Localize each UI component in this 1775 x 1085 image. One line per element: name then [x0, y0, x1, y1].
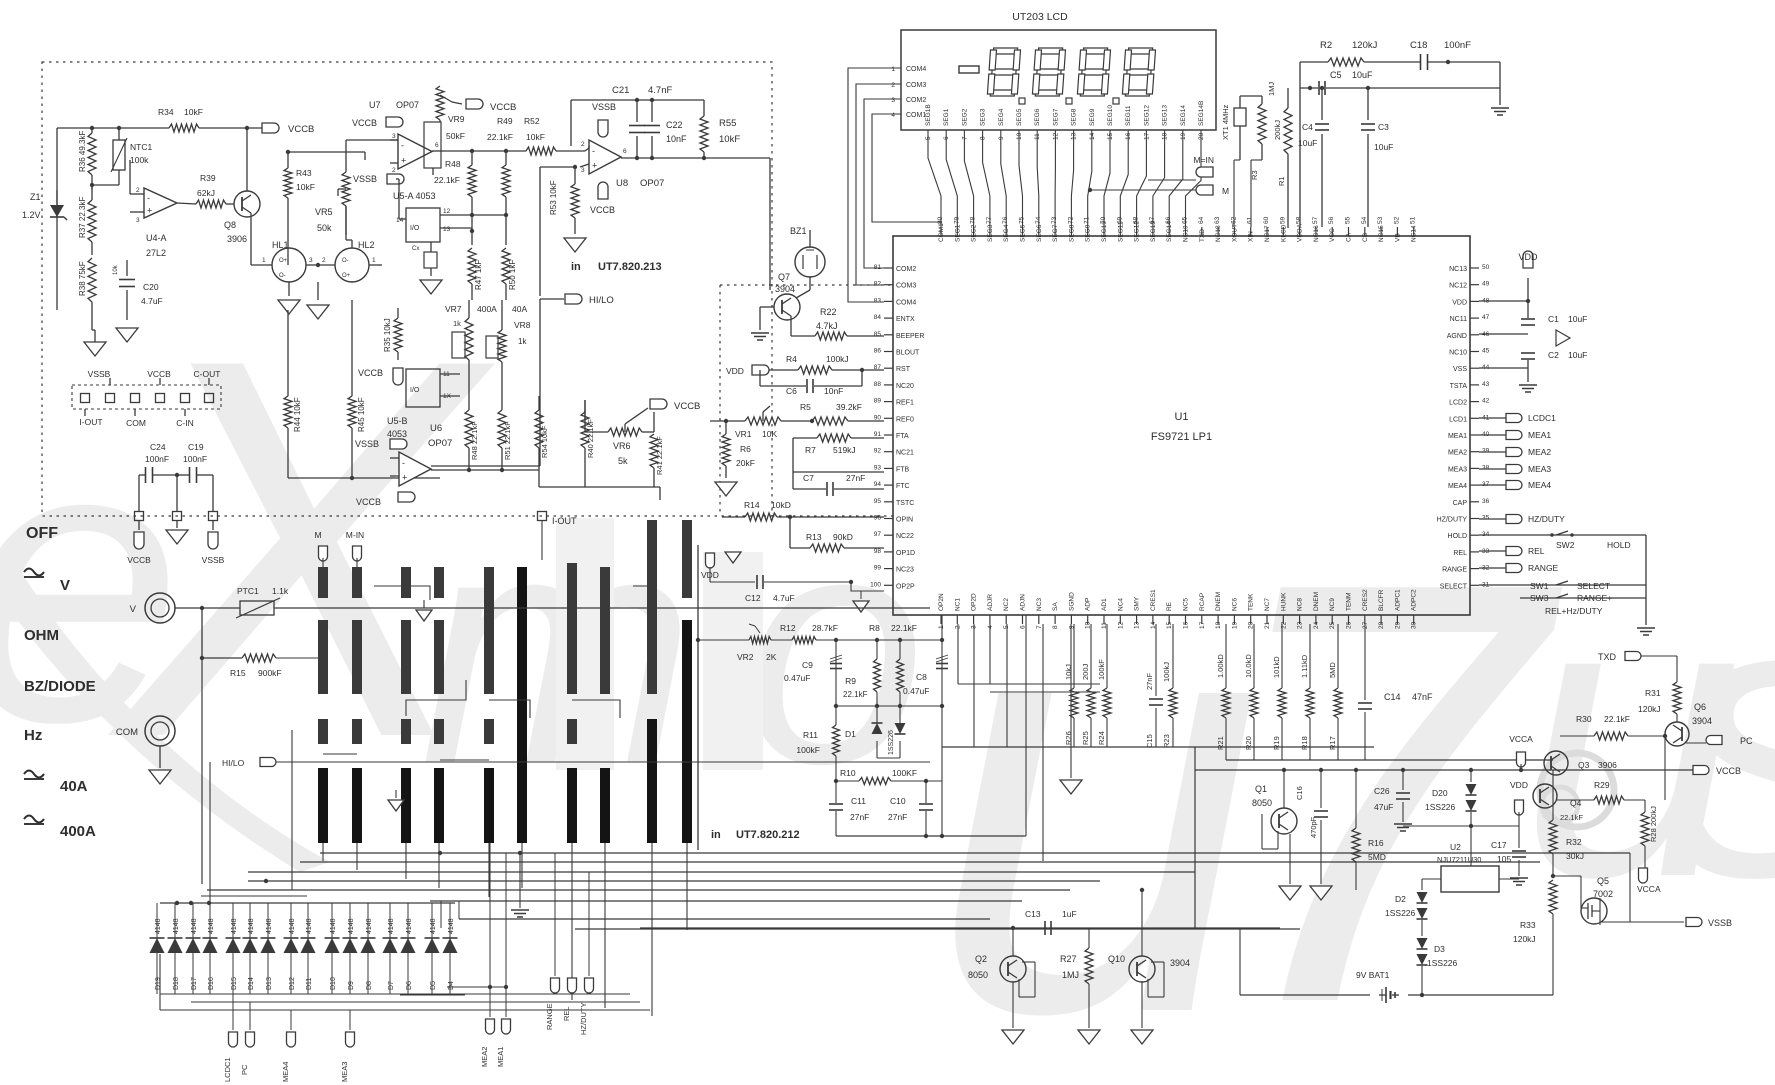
svg-text:25: 25 — [1329, 621, 1336, 629]
svg-text:10uF: 10uF — [1352, 70, 1373, 80]
frame bottom wire — [1195, 928, 1300, 930]
svg-text:10kJ: 10kJ — [1064, 664, 1073, 680]
gnd arrow under SGND pin — [1070, 624, 1072, 778]
svg-text:61: 61 — [1247, 216, 1254, 224]
wire pin6 column to rail — [1025, 615, 1027, 836]
svg-text:R14: R14 — [744, 500, 760, 510]
svg-text:VSSB: VSSB — [202, 555, 225, 565]
svg-text:R47 1kF: R47 1kF — [474, 260, 483, 290]
svg-text:MEA2: MEA2 — [1528, 447, 1551, 457]
svg-text:V: V — [60, 577, 70, 594]
wire BZ1 top — [809, 230, 811, 247]
svg-text:U7: U7 — [369, 100, 381, 110]
svg-text:86: 86 — [874, 348, 882, 355]
svg-text:R18: R18 — [1300, 736, 1309, 750]
svg-text:COM4: COM4 — [896, 299, 916, 306]
svg-text:M-IN: M-IN — [346, 530, 364, 540]
svg-text:13: 13 — [1134, 621, 1141, 629]
svg-text:VCCB: VCCB — [358, 368, 383, 378]
svg-text:REL+Hz/DUTY: REL+Hz/DUTY — [1545, 606, 1603, 616]
signal wire U7 out — [444, 150, 526, 152]
capacitor C8 0.47uF — [941, 615, 943, 706]
svg-text:OP1D: OP1D — [896, 550, 915, 557]
svg-text:ADJR: ADJR — [987, 594, 994, 611]
capacitor C1 10uF — [1527, 301, 1529, 318]
svg-text:R28 200kJ: R28 200kJ — [1649, 806, 1658, 842]
svg-text:SW2: SW2 — [1556, 540, 1575, 550]
svg-text:ADP: ADP — [1085, 598, 1092, 611]
svg-text:R54 10kF: R54 10kF — [540, 425, 549, 458]
ground below Q1 — [1279, 886, 1301, 900]
diode D5 4148 — [431, 903, 433, 938]
resistor R17 5MD — [1337, 624, 1339, 688]
svg-text:NC5: NC5 — [1183, 598, 1190, 611]
svg-text:519kJ: 519kJ — [833, 445, 856, 455]
diode D18 4148 — [174, 903, 176, 938]
svg-text:R40 22.1kF: R40 22.1kF — [586, 419, 595, 458]
svg-text:SEG2: SEG2 — [961, 108, 968, 126]
svg-text:D10: D10 — [330, 977, 337, 990]
svg-text:97: 97 — [874, 531, 882, 538]
svg-text:4148: 4148 — [231, 918, 238, 934]
resistor R30 22.1kF — [1560, 735, 1594, 737]
svg-text:D6: D6 — [406, 981, 413, 990]
label AC/DC V — [24, 576, 44, 578]
square nodes on dashed line — [135, 512, 144, 521]
svg-text:NJU7211U30: NJU7211U30 — [1437, 855, 1481, 864]
svg-text:Q8: Q8 — [224, 220, 236, 230]
capacitor C26 47uF — [1402, 770, 1404, 790]
ground below Q10 — [1141, 982, 1143, 1028]
svg-text:D17: D17 — [191, 977, 198, 990]
svg-text:VCCB: VCCB — [590, 205, 615, 215]
pad VCCB mid — [393, 368, 403, 385]
svg-text:56: 56 — [1328, 216, 1335, 224]
svg-text:C20: C20 — [143, 282, 159, 292]
svg-text:3: 3 — [891, 97, 895, 104]
LCD digit 8 (1) — [987, 48, 1020, 96]
svg-text:VR1: VR1 — [735, 429, 752, 439]
svg-text:SEG7: SEG7 — [1052, 108, 1059, 126]
svg-text:HL2: HL2 — [358, 240, 375, 250]
dashed boundary line y=516 to U1 — [772, 515, 893, 517]
svg-text:NC23: NC23 — [896, 567, 914, 574]
rotary switch contact column x=357 — [352, 567, 362, 598]
ground arrow in bars — [423, 600, 425, 608]
svg-text:NC18: NC18 — [1215, 225, 1222, 242]
U1 right pins — [1470, 267, 1479, 269]
capacitor C11 27nF — [835, 781, 837, 803]
svg-text:90kD: 90kD — [833, 532, 853, 542]
svg-text:100nF: 100nF — [1444, 40, 1471, 51]
svg-text:7002: 7002 — [1593, 889, 1613, 899]
svg-text:Q7: Q7 — [778, 272, 790, 282]
resistor R34 10kF — [169, 124, 199, 132]
svg-text:ADJN: ADJN — [1020, 594, 1027, 611]
svg-text:4: 4 — [891, 112, 895, 119]
earth below C17 — [1510, 877, 1528, 879]
svg-text:Q1: Q1 — [1255, 784, 1267, 794]
ground below OP2P wire — [860, 591, 862, 599]
resistor R24 100kF — [1106, 624, 1108, 688]
earth below C2 — [1527, 360, 1529, 382]
svg-text:SEG10: SEG10 — [1107, 105, 1114, 126]
svg-text:MEA2: MEA2 — [480, 1047, 489, 1067]
diode D16 4148 — [209, 903, 211, 938]
svg-text:C11: C11 — [851, 796, 866, 806]
svg-text:D13: D13 — [266, 977, 273, 990]
svg-text:R48: R48 — [445, 159, 461, 169]
resistor R21 1.00kD — [1225, 624, 1227, 688]
svg-text:D15: D15 — [231, 977, 238, 990]
pad PC bottom — [249, 1002, 251, 1030]
svg-text:4148: 4148 — [248, 918, 255, 934]
svg-text:I-OUT: I-OUT — [552, 516, 577, 526]
svg-text:1SS226: 1SS226 — [1425, 802, 1456, 812]
wire HL1 top to R43 — [287, 248, 289, 265]
resistor R9 22.1kF — [876, 640, 878, 659]
svg-text:OP2P: OP2P — [896, 583, 915, 590]
svg-text:R11: R11 — [803, 730, 818, 740]
ground next to VDD pad — [725, 552, 741, 563]
diode D14 4148 — [249, 903, 251, 938]
svg-text:R49: R49 — [497, 116, 513, 126]
svg-text:R34: R34 — [158, 107, 174, 117]
svg-text:900kF: 900kF — [258, 668, 282, 678]
transistor Q10 3904 — [1129, 956, 1155, 982]
small connector below U5-A — [424, 252, 437, 268]
pad MEA2 bottom — [489, 843, 491, 1017]
svg-text:R52: R52 — [524, 116, 540, 126]
svg-text:42: 42 — [1482, 398, 1490, 405]
svg-text:R29: R29 — [1594, 780, 1610, 790]
svg-text:HZ/DUTY: HZ/DUTY — [579, 1003, 588, 1036]
resistor R32 30kJ — [1552, 770, 1554, 820]
svg-text:TENK: TENK — [1248, 593, 1255, 611]
svg-text:VCCB: VCCB — [147, 369, 171, 379]
svg-text:COM: COM — [126, 418, 146, 428]
ground below C20 — [116, 328, 138, 342]
svg-text:45: 45 — [1482, 348, 1490, 355]
svg-text:R48 22.1kF: R48 22.1kF — [470, 421, 479, 460]
svg-text:R22: R22 — [820, 307, 837, 317]
svg-text:22.1kF: 22.1kF — [891, 623, 917, 633]
transistor Q3 3906 — [1544, 751, 1568, 775]
svg-text:27nF: 27nF — [846, 473, 865, 483]
svg-text:R7: R7 — [805, 445, 816, 455]
stair wires inside bars area — [374, 586, 430, 600]
svg-text:22.1kF: 22.1kF — [843, 690, 868, 699]
svg-text:R12: R12 — [780, 623, 796, 633]
svg-text:2: 2 — [392, 167, 396, 174]
svg-text:1: 1 — [891, 66, 895, 73]
svg-text:O-: O- — [279, 273, 286, 279]
svg-text:18: 18 — [1215, 621, 1222, 629]
svg-text:MEA2: MEA2 — [1448, 450, 1467, 457]
svg-text:20kF: 20kF — [736, 458, 755, 468]
wire Q8 to HL1 — [250, 240, 252, 265]
svg-text:D9: D9 — [348, 981, 355, 990]
svg-text:FTA: FTA — [896, 433, 909, 440]
bus line 2 — [300, 861, 1540, 863]
pad VCCA bottom right — [1639, 868, 1648, 883]
svg-text:HI/LO: HI/LO — [589, 295, 614, 306]
svg-text:D12: D12 — [289, 977, 296, 990]
svg-text:R20: R20 — [1244, 736, 1253, 750]
svg-text:VB: VB — [1394, 233, 1401, 242]
svg-text:R43: R43 — [296, 168, 312, 178]
svg-text:OFF: OFF — [26, 525, 58, 542]
svg-text:CA: CA — [1346, 232, 1353, 242]
svg-text:OP2D: OP2D — [971, 593, 978, 611]
svg-text:R17: R17 — [1328, 736, 1337, 750]
wires C24/C19 down to dashed line — [138, 475, 140, 511]
svg-text:88: 88 — [874, 381, 882, 388]
resistor R49 22.1kF — [502, 165, 510, 197]
svg-text:MEA4: MEA4 — [1448, 483, 1467, 490]
svg-text:R37 22.3kF: R37 22.3kF — [78, 197, 87, 238]
resistor R45 10kF — [351, 300, 353, 396]
bus line 6 — [430, 900, 1022, 902]
svg-text:29: 29 — [1394, 621, 1401, 629]
thermistor NTC1 100k — [113, 140, 125, 170]
svg-text:M: M — [1222, 186, 1229, 196]
svg-text:VCCB: VCCB — [352, 118, 377, 128]
svg-text:59: 59 — [1279, 216, 1286, 224]
capacitor C19 100nF — [177, 474, 189, 476]
svg-text:0.47uF: 0.47uF — [784, 673, 810, 683]
svg-text:22.1kF: 22.1kF — [434, 175, 460, 185]
svg-text:1MJ: 1MJ — [1062, 970, 1079, 980]
capacitor C17 105 — [1518, 826, 1520, 848]
svg-text:COM4: COM4 — [906, 66, 926, 73]
pad VCCA top — [1517, 752, 1526, 767]
inductor HL1 — [272, 248, 306, 282]
svg-text:VCC: VCC — [1329, 228, 1336, 242]
svg-text:SMY: SMY — [1134, 596, 1141, 611]
svg-text:VCCA: VCCA — [1509, 734, 1533, 744]
diode D9 4148 — [349, 903, 351, 938]
svg-text:BLOUT: BLOUT — [896, 350, 920, 357]
svg-text:C18: C18 — [1410, 40, 1427, 51]
svg-text:2: 2 — [136, 187, 140, 194]
diode D12 4148 — [290, 903, 292, 938]
pad VCCB below U6 — [398, 492, 415, 502]
svg-text:C1: C1 — [1548, 314, 1559, 324]
svg-text:CB: CB — [1362, 233, 1369, 242]
svg-text:C13: C13 — [1025, 909, 1041, 919]
svg-text:UT7.820.213: UT7.820.213 — [598, 261, 662, 273]
svg-text:36: 36 — [1482, 498, 1490, 505]
svg-text:R2: R2 — [1320, 40, 1332, 51]
diode D17 4148 — [192, 903, 194, 938]
svg-text:-: - — [402, 458, 405, 468]
pad MEA3 bottom — [349, 1010, 351, 1030]
svg-text:D14: D14 — [248, 977, 255, 990]
svg-text:R15: R15 — [230, 668, 246, 678]
svg-text:OP07: OP07 — [396, 100, 419, 110]
svg-text:VCCA: VCCA — [1637, 884, 1661, 894]
potentiometer VR7 400A — [465, 318, 473, 360]
svg-text:64: 64 — [1198, 216, 1205, 224]
svg-text:Q6: Q6 — [1694, 702, 1706, 712]
resistor R43 10kF — [284, 168, 292, 198]
svg-text:NC22: NC22 — [896, 533, 914, 540]
ground below C16 — [1310, 886, 1332, 900]
svg-text:PC: PC — [240, 1064, 249, 1075]
svg-text:30kJ: 30kJ — [1566, 851, 1584, 861]
svg-text:5MD: 5MD — [1368, 852, 1386, 862]
bus corner verticals — [440, 901, 442, 928]
wire V net down — [201, 658, 203, 884]
switch SW3 RANGE+ — [1520, 597, 1646, 599]
transistor Q5 7002 mosfet — [1581, 898, 1607, 924]
svg-text:3: 3 — [136, 217, 140, 224]
mid-left nest wires — [209, 762, 211, 903]
svg-text:4148: 4148 — [448, 918, 455, 934]
svg-text:VDD: VDD — [1452, 299, 1467, 306]
svg-text:43: 43 — [1482, 381, 1490, 388]
svg-text:VCCB: VCCB — [490, 102, 516, 113]
svg-text:M: M — [314, 530, 321, 540]
svg-text:NC20: NC20 — [896, 383, 914, 390]
svg-text:82: 82 — [874, 281, 882, 288]
pad MEA4 bottom — [290, 1010, 292, 1030]
svg-text:C17: C17 — [1491, 840, 1507, 850]
svg-text:C7: C7 — [803, 473, 814, 483]
svg-text:C9: C9 — [802, 660, 813, 670]
svg-text:U8: U8 — [616, 178, 628, 189]
resistor R8 22.1kF vertical — [899, 640, 901, 659]
svg-text:3906: 3906 — [1598, 760, 1617, 770]
resistor R50 1kF — [502, 248, 510, 284]
svg-text:200J: 200J — [1081, 663, 1090, 680]
U1 bottom pins — [940, 615, 942, 624]
svg-text:TSTC: TSTC — [896, 500, 914, 507]
svg-text:C8: C8 — [916, 672, 927, 682]
svg-text:KLCD: KLCD — [1280, 224, 1287, 242]
svg-text:40A: 40A — [512, 304, 527, 314]
svg-text:MEA3: MEA3 — [340, 1062, 349, 1082]
svg-text:HZ/DUTY: HZ/DUTY — [1528, 514, 1565, 524]
wire rail into U7 — [288, 151, 365, 153]
svg-text:12: 12 — [1117, 621, 1124, 629]
ground below dashed line — [176, 521, 178, 528]
svg-text:R36 49.3kF: R36 49.3kF — [78, 131, 87, 172]
rotary switch contact column x=605 — [600, 567, 610, 694]
svg-text:NC3: NC3 — [1036, 598, 1043, 611]
resistor R27 1MJ — [1088, 928, 1090, 948]
ground below HL1 — [288, 282, 290, 296]
pad M — [1196, 185, 1213, 195]
svg-text:D3: D3 — [1434, 944, 1445, 954]
svg-text:ADPC2: ADPC2 — [1411, 589, 1418, 611]
svg-text:R41 22.1kF: R41 22.1kF — [655, 436, 664, 475]
U1 top pins — [940, 227, 942, 236]
svg-text:C16: C16 — [1295, 786, 1304, 800]
svg-text:10k: 10k — [113, 264, 119, 275]
svg-text:MEA4: MEA4 — [1528, 480, 1551, 490]
svg-text:D2: D2 — [1395, 894, 1406, 904]
diode D15 4148 — [232, 903, 234, 938]
svg-text:NC21: NC21 — [896, 450, 914, 457]
buzzer BZ1 — [795, 247, 825, 277]
LCD decimal points — [1019, 98, 1025, 104]
svg-text:CAP: CAP — [1453, 500, 1468, 507]
svg-text:50: 50 — [1482, 264, 1490, 271]
rotary switch contact column x=522 — [517, 567, 527, 843]
transistor Q4 3906 — [1533, 784, 1557, 808]
svg-text:ENTX: ENTX — [896, 316, 915, 323]
diode D6 4148 — [407, 903, 409, 938]
svg-text:VR7: VR7 — [445, 304, 462, 314]
svg-text:1.11kD: 1.11kD — [1300, 654, 1309, 678]
svg-text:C15: C15 — [1145, 734, 1154, 748]
svg-text:R53 10kF: R53 10kF — [549, 180, 558, 215]
bus line 1 — [320, 852, 1630, 854]
svg-text:D18: D18 — [173, 977, 180, 990]
svg-text:U2: U2 — [1450, 842, 1461, 852]
svg-text:27nF: 27nF — [850, 812, 869, 822]
feedback rail C21 — [571, 99, 704, 101]
svg-text:VDD: VDD — [726, 366, 744, 376]
ground top right — [1499, 62, 1501, 105]
wire row C13 — [640, 927, 1280, 929]
svg-text:R21: R21 — [1216, 736, 1225, 750]
wire node — [92, 184, 119, 186]
connector squares — [81, 394, 90, 403]
svg-text:SEG13: SEG13 — [1162, 105, 1169, 126]
resistor R23 100kJ — [1172, 624, 1174, 688]
pad VCCB below U8 — [598, 182, 608, 199]
svg-text:4.7uF: 4.7uF — [141, 296, 163, 306]
svg-text:D16: D16 — [208, 977, 215, 990]
svg-text:XT1 4MHz: XT1 4MHz — [1221, 104, 1230, 140]
resistor R7 519kJ — [793, 437, 817, 439]
pads LCDC1 MEA1-4 — [1479, 417, 1506, 419]
svg-text:10.0kD: 10.0kD — [1244, 654, 1253, 678]
svg-text:REF0: REF0 — [896, 416, 914, 423]
svg-text:19: 19 — [1231, 621, 1238, 629]
transistor Q7 3904 — [774, 294, 800, 320]
svg-text:R44 10kF: R44 10kF — [293, 397, 302, 432]
svg-text:HZ/DUTY: HZ/DUTY — [1437, 517, 1468, 524]
svg-text:4148: 4148 — [208, 918, 215, 934]
svg-text:4.7uF: 4.7uF — [773, 593, 795, 603]
svg-text:22: 22 — [1280, 621, 1287, 629]
resistor R48 22.1kF — [468, 165, 476, 197]
svg-text:SELECT: SELECT — [1577, 581, 1610, 591]
svg-text:R10: R10 — [840, 768, 856, 778]
transistor Q8 3906 — [234, 191, 260, 217]
svg-text:92: 92 — [874, 448, 882, 455]
diode D7 4148 — [389, 903, 391, 938]
svg-text:+: + — [401, 155, 406, 165]
svg-text:120kJ: 120kJ — [1638, 704, 1661, 714]
svg-text:NC15: NC15 — [1378, 225, 1385, 242]
svg-text:C5: C5 — [1330, 70, 1342, 80]
svg-text:22.1kF: 22.1kF — [1604, 714, 1630, 724]
capacitor C14 47nF — [1364, 624, 1366, 700]
svg-text:200kJ: 200kJ — [1273, 120, 1282, 140]
svg-text:HUNK: HUNK — [1280, 592, 1287, 611]
capacitor C22 10nF — [651, 100, 653, 122]
svg-text:1uF: 1uF — [1062, 909, 1077, 919]
resistor R25 200J — [1090, 624, 1092, 688]
svg-text:10nF: 10nF — [666, 134, 687, 144]
op-amp U6 OP07 — [399, 452, 431, 486]
pad LCDC1 bottom — [232, 994, 234, 1030]
